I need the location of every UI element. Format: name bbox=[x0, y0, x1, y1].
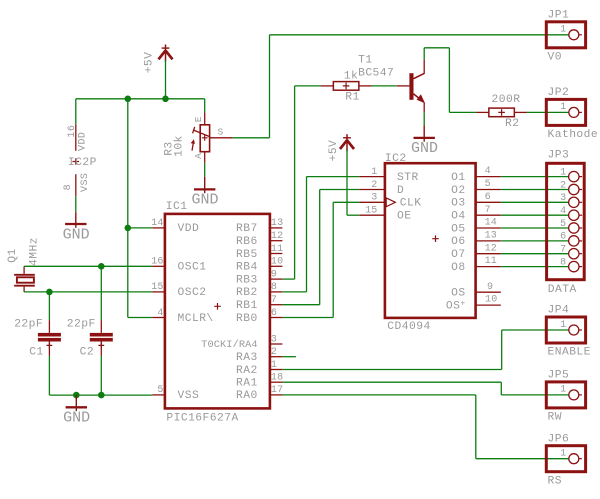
svg-text:17: 17 bbox=[271, 385, 283, 396]
svg-text:7: 7 bbox=[271, 295, 277, 306]
svg-text:15: 15 bbox=[151, 282, 163, 293]
svg-text:CD4094: CD4094 bbox=[387, 321, 430, 333]
junction VDD branch bbox=[125, 225, 132, 232]
svg-text:1: 1 bbox=[560, 449, 566, 460]
ground GND (T1) bbox=[411, 126, 438, 158]
svg-text:GND: GND bbox=[192, 192, 219, 209]
wire +5V drop bbox=[165, 60, 167, 99]
svg-text:T0CKI/RA4: T0CKI/RA4 bbox=[201, 339, 258, 351]
svg-text:JP4: JP4 bbox=[548, 305, 570, 317]
wire R3 A to GND bbox=[204, 163, 206, 177]
IC2 pin 2 D bbox=[359, 180, 404, 197]
IC2 pin 4 O1 bbox=[451, 166, 501, 184]
svg-text:RB5: RB5 bbox=[236, 249, 258, 261]
wire +5V rail bbox=[76, 98, 205, 100]
svg-text:PIC16F627A: PIC16F627A bbox=[166, 412, 238, 424]
svg-text:Q1: Q1 bbox=[7, 248, 19, 262]
IC1 pin 9 RB3 bbox=[236, 269, 282, 286]
svg-text:16: 16 bbox=[67, 125, 78, 138]
svg-text:8: 8 bbox=[560, 257, 566, 268]
svg-text:5: 5 bbox=[485, 179, 491, 190]
capacitor C1 22pF bbox=[14, 319, 61, 359]
IC2 pin 3 CLK bbox=[359, 193, 421, 210]
IC1 pin 8 RB2 bbox=[236, 282, 282, 299]
junction rail/VDD-branch bbox=[125, 96, 132, 103]
IC2 pin 6 O3 bbox=[451, 192, 501, 210]
svg-text:14: 14 bbox=[151, 218, 163, 229]
svg-text:S: S bbox=[218, 126, 224, 137]
svg-text:2: 2 bbox=[371, 180, 377, 191]
svg-text:7: 7 bbox=[485, 205, 491, 216]
svg-text:22pF: 22pF bbox=[67, 319, 96, 331]
svg-text:RA3: RA3 bbox=[236, 352, 258, 364]
svg-text:OE: OE bbox=[397, 211, 411, 223]
svg-text:+5V: +5V bbox=[328, 140, 340, 162]
svg-text:Kathode: Kathode bbox=[548, 129, 599, 141]
wire data lines IC2 to JP3 bbox=[501, 177, 569, 267]
svg-text:GND: GND bbox=[411, 140, 438, 157]
wire R1 to base bbox=[371, 85, 396, 87]
wire RA0 to JP6 RS bbox=[282, 395, 568, 459]
svg-text:13: 13 bbox=[485, 231, 497, 242]
connector JP2 Kathode bbox=[546, 87, 598, 141]
svg-text:C1: C1 bbox=[29, 347, 43, 359]
svg-text:T1: T1 bbox=[358, 55, 372, 67]
wire RB2 to STR bbox=[282, 177, 359, 292]
svg-text:22pF: 22pF bbox=[14, 319, 43, 331]
svg-text:RB6: RB6 bbox=[236, 236, 258, 248]
svg-text:3: 3 bbox=[271, 334, 277, 345]
svg-text:3: 3 bbox=[560, 193, 566, 204]
svg-text:2: 2 bbox=[560, 180, 566, 191]
wire rail to R3 bbox=[204, 99, 206, 113]
svg-text:V0: V0 bbox=[548, 51, 562, 63]
svg-text:RA1: RA1 bbox=[236, 378, 258, 390]
svg-text:RB3: RB3 bbox=[236, 274, 258, 286]
svg-text:4: 4 bbox=[485, 166, 491, 177]
svg-text:RB1: RB1 bbox=[236, 300, 258, 312]
IC2 pin 14 O5 bbox=[451, 218, 501, 236]
IC1 pin 5 VSS bbox=[152, 385, 199, 402]
wire C2 bottom bbox=[100, 356, 102, 395]
resistor R1 labels bbox=[344, 71, 360, 104]
trimmer R3 labels bbox=[164, 135, 186, 157]
svg-text:5: 5 bbox=[560, 219, 566, 230]
svg-text:O2: O2 bbox=[451, 185, 465, 197]
svg-text:1: 1 bbox=[560, 385, 566, 396]
svg-text:GND: GND bbox=[63, 410, 90, 427]
svg-text:6: 6 bbox=[485, 192, 491, 203]
+5V supply symbol SUPPLY1 bbox=[144, 45, 173, 74]
IC1 pin 14 VDD bbox=[151, 218, 199, 235]
trimmer R3 body bbox=[200, 125, 209, 152]
svg-text:O3: O3 bbox=[451, 198, 465, 210]
svg-text:6: 6 bbox=[271, 308, 277, 319]
crystal Q1 4MHz bbox=[7, 237, 40, 292]
trimmer R3 wiper mark bbox=[191, 127, 211, 151]
svg-text:18: 18 bbox=[271, 373, 283, 384]
svg-text:R2: R2 bbox=[505, 118, 519, 130]
svg-text:4: 4 bbox=[560, 206, 566, 217]
svg-text:10: 10 bbox=[485, 295, 497, 306]
+5V supply symbol SUPPLY2 bbox=[328, 134, 354, 161]
svg-text:10: 10 bbox=[271, 257, 283, 268]
svg-text:E: E bbox=[193, 116, 204, 122]
resistor R2 labels bbox=[492, 94, 521, 130]
node V0 net bbox=[233, 35, 569, 138]
svg-text:JP2: JP2 bbox=[548, 87, 570, 99]
IC2 pin 7 O4 bbox=[451, 205, 501, 223]
resistor R2 200R bbox=[476, 108, 527, 117]
svg-text:IC2: IC2 bbox=[385, 153, 407, 165]
svg-text:1: 1 bbox=[371, 167, 377, 178]
svg-text:O6: O6 bbox=[451, 236, 465, 248]
svg-text:IC1: IC1 bbox=[166, 201, 188, 213]
svg-text:OSC2: OSC2 bbox=[178, 287, 207, 299]
svg-text:RB0: RB0 bbox=[236, 313, 258, 325]
svg-text:16: 16 bbox=[151, 257, 163, 268]
wire RB0 to CLK bbox=[282, 202, 359, 317]
svg-text:12: 12 bbox=[271, 231, 283, 242]
IC2 pin 10 OS* bbox=[446, 295, 501, 313]
wire RA3 stub bbox=[282, 356, 296, 358]
connector JP5 RW bbox=[546, 370, 585, 424]
svg-text:STR: STR bbox=[397, 172, 419, 184]
IC1 pin 3 T0CKI/RA4 bbox=[201, 334, 282, 351]
svg-text:4MHz: 4MHz bbox=[28, 237, 40, 266]
svg-text:VSS: VSS bbox=[80, 173, 91, 192]
wire RB1 to D bbox=[282, 190, 359, 305]
svg-text:9: 9 bbox=[487, 282, 493, 293]
wire ground net to VSS bbox=[49, 394, 152, 396]
svg-text:8: 8 bbox=[63, 184, 74, 190]
junction rail/+5V bbox=[162, 96, 169, 103]
IC2 pin 5 O2 bbox=[451, 179, 501, 197]
svg-text:RA2: RA2 bbox=[236, 365, 258, 377]
power pin 16 VDD (IC2P) bbox=[67, 124, 89, 151]
svg-text:1k: 1k bbox=[344, 71, 358, 83]
svg-text:10k: 10k bbox=[173, 135, 185, 157]
IC1 pin 12 RB6 bbox=[236, 231, 283, 248]
capacitor C2 22pF bbox=[67, 319, 113, 359]
svg-text:OSC1: OSC1 bbox=[178, 262, 207, 274]
svg-text:JP3: JP3 bbox=[548, 149, 570, 161]
svg-text:+5V: +5V bbox=[144, 52, 156, 74]
ground GND (R3) bbox=[192, 177, 219, 209]
IC1 pin 17 RA0 bbox=[236, 385, 283, 402]
IC1 pin 16 OSC1 bbox=[151, 257, 206, 274]
svg-text:JP6: JP6 bbox=[548, 433, 570, 445]
svg-text:RW: RW bbox=[548, 412, 562, 424]
wire OSC2 net bbox=[24, 291, 152, 293]
svg-text:CLK: CLK bbox=[400, 198, 422, 210]
wire to VDD pin 14 bbox=[128, 227, 153, 229]
svg-text:9: 9 bbox=[271, 269, 277, 280]
svg-text:ENABLE: ENABLE bbox=[548, 347, 591, 359]
IC1 pin 18 RA1 bbox=[236, 373, 283, 390]
connector JP6 RS bbox=[546, 433, 585, 487]
IC2 pin 13 O6 bbox=[451, 231, 501, 249]
resistor R1 1k bbox=[321, 82, 372, 91]
svg-text:RB2: RB2 bbox=[236, 287, 258, 299]
svg-text:RB7: RB7 bbox=[236, 223, 258, 235]
svg-text:1: 1 bbox=[560, 167, 566, 178]
svg-text:MCLR\: MCLR\ bbox=[178, 313, 214, 325]
IC1 pin 1 RA2 bbox=[236, 360, 282, 377]
svg-text:VSS: VSS bbox=[178, 390, 200, 402]
IC1 pin 4 MCLR\ bbox=[152, 308, 213, 325]
svg-text:C2: C2 bbox=[80, 347, 94, 359]
connector JP3 DATA bbox=[547, 149, 585, 295]
svg-text:RS: RS bbox=[548, 475, 562, 487]
svg-text:1: 1 bbox=[560, 320, 566, 331]
IC1 pin 6 RB0 bbox=[236, 308, 282, 325]
svg-text:JP1: JP1 bbox=[548, 9, 570, 21]
svg-text:A: A bbox=[193, 153, 204, 159]
svg-text:O4: O4 bbox=[451, 211, 465, 223]
IC1 pin 2 RA3 bbox=[236, 347, 282, 364]
svg-text:1: 1 bbox=[271, 360, 277, 371]
svg-text:2: 2 bbox=[271, 347, 277, 358]
IC2 pin 9 OS bbox=[451, 282, 501, 300]
svg-text:BC547: BC547 bbox=[358, 68, 394, 80]
junction OSC1/C2 bbox=[98, 263, 105, 270]
IC1 pin 11 RB5 bbox=[236, 244, 283, 261]
wire emitter to GND bbox=[423, 112, 425, 125]
IC1 pin 15 OSC2 bbox=[151, 282, 206, 299]
svg-text:RB4: RB4 bbox=[236, 262, 258, 274]
svg-text:O7: O7 bbox=[451, 249, 465, 261]
svg-text:OS+: OS+ bbox=[446, 299, 466, 312]
svg-text:7: 7 bbox=[560, 245, 566, 256]
transistor T1 BC547 bbox=[358, 55, 425, 113]
trimmer R3 10k pin E bbox=[193, 113, 205, 125]
wire IC2P VSS to GND bbox=[75, 196, 77, 212]
wire RA2 to JP4 ENABLE bbox=[282, 330, 568, 370]
svg-text:GND: GND bbox=[63, 226, 90, 243]
svg-text:4: 4 bbox=[157, 308, 163, 319]
svg-text:JP5: JP5 bbox=[548, 370, 570, 382]
trimmer R3 pin S (wiper) bbox=[210, 126, 233, 138]
wire rail down to MCLR bbox=[127, 99, 129, 318]
svg-text:D: D bbox=[397, 185, 404, 197]
wire C2 top bbox=[100, 266, 102, 320]
svg-text:8: 8 bbox=[271, 282, 277, 293]
svg-text:200R: 200R bbox=[492, 94, 521, 106]
wire OSC1 net bbox=[24, 265, 152, 267]
ground GND (bottom left) bbox=[63, 395, 90, 427]
junction OSC2/C1 bbox=[46, 289, 53, 296]
wire collector to R2 bbox=[424, 48, 476, 113]
IC2 pin 12 O7 bbox=[451, 243, 501, 261]
junction gnd symbol bbox=[73, 392, 80, 399]
IC2 pin 11 O8 bbox=[451, 256, 501, 274]
svg-text:O8: O8 bbox=[451, 262, 465, 274]
wire RA1 to JP5 RW bbox=[282, 382, 568, 395]
power pin 8 VSS (IC2P) bbox=[63, 173, 91, 197]
IC1 pin 7 RB1 bbox=[236, 295, 282, 312]
svg-text:RA0: RA0 bbox=[236, 390, 258, 402]
svg-text:1: 1 bbox=[560, 102, 566, 113]
svg-text:IC2P: IC2P bbox=[68, 157, 97, 169]
svg-text:11: 11 bbox=[271, 244, 283, 255]
svg-text:5: 5 bbox=[157, 385, 163, 396]
svg-text:13: 13 bbox=[271, 218, 283, 229]
wire +5V to OE bbox=[347, 150, 359, 216]
svg-text:O1: O1 bbox=[451, 172, 465, 184]
wire to MCLR pin bbox=[128, 317, 153, 319]
connector JP4 ENABLE bbox=[546, 305, 591, 359]
ground GND (IC2P) bbox=[63, 212, 90, 243]
svg-text:12: 12 bbox=[485, 243, 497, 254]
wire R2 to JP2 bbox=[527, 111, 569, 113]
IC U2 CD4094 body bbox=[385, 153, 476, 333]
wire C1 top bbox=[48, 292, 50, 320]
IC1 pin 13 RB7 bbox=[236, 218, 283, 235]
IC1 pin 10 RB4 bbox=[236, 257, 283, 274]
svg-text:R1: R1 bbox=[345, 91, 359, 103]
svg-text:VDD: VDD bbox=[178, 223, 200, 235]
svg-text:6: 6 bbox=[560, 232, 566, 243]
wire rail to IC2P VDD bbox=[75, 99, 77, 125]
svg-text:DATA: DATA bbox=[548, 284, 577, 296]
IC2 pin 15 OE bbox=[359, 206, 411, 223]
svg-text:3: 3 bbox=[371, 193, 377, 204]
IC2 pin 1 STR bbox=[359, 167, 418, 184]
svg-text:O5: O5 bbox=[451, 223, 465, 235]
junction C2/gnd bbox=[98, 392, 105, 399]
wire RB3 to R1 bbox=[282, 86, 321, 279]
trimmer R3 pin A bbox=[193, 152, 205, 163]
connector JP1 V0 bbox=[546, 9, 585, 63]
svg-text:11: 11 bbox=[485, 256, 497, 267]
IC U1 PIC16F627A body bbox=[165, 201, 270, 424]
svg-text:14: 14 bbox=[485, 218, 497, 229]
IC2P origin cross and label bbox=[68, 157, 97, 169]
svg-text:15: 15 bbox=[365, 206, 377, 217]
wire C1 bottom bbox=[48, 356, 50, 395]
svg-text:1: 1 bbox=[560, 25, 566, 36]
svg-text:OS: OS bbox=[451, 288, 465, 300]
svg-text:VDD: VDD bbox=[78, 132, 89, 151]
